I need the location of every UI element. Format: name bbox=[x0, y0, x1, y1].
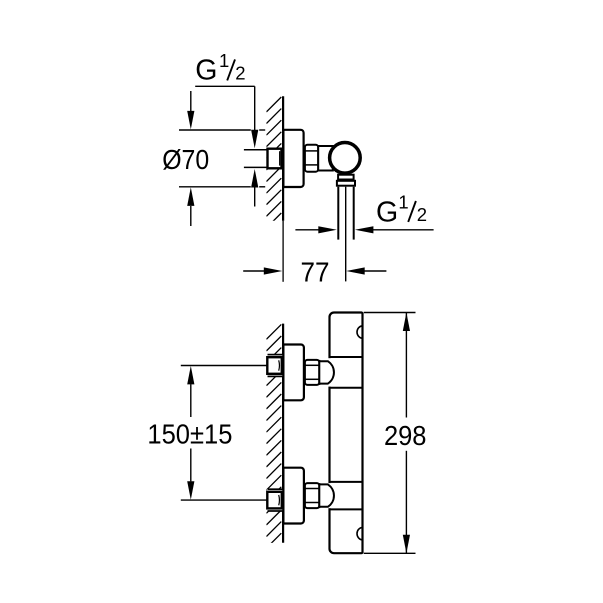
150 dim line lower part bbox=[190, 449, 192, 482]
socket upper line (lower assembly) bbox=[268, 488, 283, 490]
union hex nut (lower assembly) bbox=[305, 483, 319, 508]
dash of extension line at wall bbox=[259, 186, 265, 188]
extension line to nipple centre (upper assembly) bbox=[181, 365, 267, 367]
union hex nut (upper assembly) bbox=[305, 360, 319, 385]
union silhouette lower line (upper assembly) bbox=[330, 387, 363, 389]
298 extension line top bbox=[364, 312, 416, 314]
wall face line (upper drawing) bbox=[282, 96, 284, 221]
dome left edge (lower assembly) bbox=[318, 483, 320, 508]
fraction slash bbox=[408, 201, 416, 222]
thermostat body bar bbox=[330, 313, 363, 554]
arrowhead down to lower nipple centre line bbox=[187, 481, 194, 500]
wall face line (lower drawing) bbox=[282, 324, 284, 543]
arrow tail below bbox=[254, 188, 256, 207]
77 dim line left bbox=[243, 270, 264, 272]
arrowhead up to upper nipple centre line bbox=[187, 366, 194, 385]
wall supply nipple (square) bbox=[268, 149, 282, 169]
dimension line right of hose bbox=[373, 229, 434, 231]
77 dim line right bbox=[364, 270, 386, 272]
arrow tail above bbox=[190, 91, 192, 111]
extension line flange bottom bbox=[179, 186, 251, 188]
nipple top edge extension bbox=[244, 149, 268, 151]
nut facet line upper bbox=[305, 150, 319, 152]
bar edge hidden behind union (upper assembly) bbox=[328, 358, 332, 386]
arrowhead down to bar bottom bbox=[403, 535, 410, 554]
svg-text:298: 298 bbox=[384, 420, 427, 451]
wall supply nipple square (lower assembly) bbox=[267, 492, 282, 509]
arrowhead up to bar top bbox=[403, 313, 410, 332]
socket white strip (lower assembly) bbox=[267, 489, 283, 511]
fraction slash bbox=[227, 59, 235, 80]
hose coupling nut block bbox=[337, 181, 355, 186]
union silhouette upper line (upper assembly) bbox=[330, 356, 363, 358]
nut facet line lower (lower assembly) bbox=[305, 502, 320, 504]
298 dim line lower part bbox=[405, 451, 407, 554]
socket white strip (upper assembly) bbox=[267, 355, 283, 377]
union silhouette upper line (lower assembly) bbox=[330, 481, 363, 483]
socket lower line (lower assembly) bbox=[268, 510, 283, 512]
nipple inner arc (upper assembly) bbox=[278, 360, 281, 370]
arrow tail below bbox=[190, 206, 192, 226]
svg-text:G: G bbox=[195, 55, 217, 87]
hose connector collar bbox=[338, 175, 354, 180]
arrowhead down to nipple top bbox=[251, 130, 258, 149]
svg-text:1: 1 bbox=[219, 50, 229, 71]
svg-text:77: 77 bbox=[301, 256, 330, 287]
nut facet line upper (lower assembly) bbox=[305, 488, 320, 490]
escutcheon flange (lower assembly) bbox=[283, 468, 304, 524]
svg-text:Ø70: Ø70 bbox=[162, 144, 209, 175]
leader line under G 1/2 bbox=[195, 85, 255, 87]
extension line to nipple centre (lower assembly) bbox=[181, 499, 267, 501]
arrowhead up to nipple bottom bbox=[251, 169, 258, 188]
arrowhead to wall face bbox=[264, 267, 283, 274]
arrowhead up to flange bottom line bbox=[187, 187, 194, 206]
svg-text:2: 2 bbox=[417, 204, 427, 225]
escutcheon flange (side view) bbox=[283, 130, 303, 187]
escutcheon flange (upper assembly) bbox=[283, 345, 304, 401]
union silhouette lower line (lower assembly) bbox=[330, 508, 363, 510]
arrowhead down to flange top line bbox=[187, 111, 194, 129]
svg-text:150±15: 150±15 bbox=[147, 419, 232, 450]
nut facet line lower (upper assembly) bbox=[305, 378, 320, 380]
valve body between nut and knob bbox=[318, 146, 333, 171]
nipple inner arc (lower assembly) bbox=[278, 495, 281, 505]
bar edge hidden behind union (lower assembly) bbox=[328, 483, 332, 508]
union hex nut (side view) bbox=[305, 145, 318, 172]
dash of extension line at wall bbox=[259, 129, 265, 131]
dimension line left of hose bbox=[295, 229, 319, 231]
leader drop line bbox=[254, 86, 256, 131]
socket upper line (upper assembly) bbox=[268, 354, 283, 356]
shower hose left edge bbox=[337, 187, 339, 240]
nipple bottom edge extension bbox=[244, 166, 268, 168]
svg-text:2: 2 bbox=[235, 62, 245, 83]
hose centre line / extension for 77 dim bbox=[345, 187, 347, 282]
svg-text:1: 1 bbox=[398, 192, 408, 213]
dome left edge (upper assembly) bbox=[318, 360, 320, 385]
union dome (upper assembly) bbox=[319, 361, 334, 383]
150 dim line upper part bbox=[190, 384, 192, 417]
arrowhead to hose left edge bbox=[318, 226, 337, 233]
wall face extension line down to 77 dim bbox=[282, 221, 284, 282]
arrowhead to hose centre bbox=[346, 267, 365, 274]
nipple inner edge line bbox=[279, 151, 281, 165]
nut facet line upper (upper assembly) bbox=[305, 364, 320, 366]
298 extension line bottom bbox=[364, 552, 416, 554]
arrowhead to hose right edge bbox=[355, 226, 374, 233]
screw cap upper bbox=[357, 326, 362, 338]
extension line flange top bbox=[179, 129, 251, 131]
wall supply nipple square (upper assembly) bbox=[267, 357, 282, 374]
298 dim line upper part bbox=[405, 313, 407, 418]
shower hose right edge bbox=[353, 187, 355, 240]
socket lower line (upper assembly) bbox=[268, 375, 283, 377]
svg-text:G: G bbox=[376, 196, 398, 228]
nut facet line lower bbox=[305, 164, 319, 166]
screw cap lower bbox=[357, 528, 362, 540]
control knob (circle) bbox=[330, 143, 361, 174]
union dome (lower assembly) bbox=[319, 484, 334, 506]
